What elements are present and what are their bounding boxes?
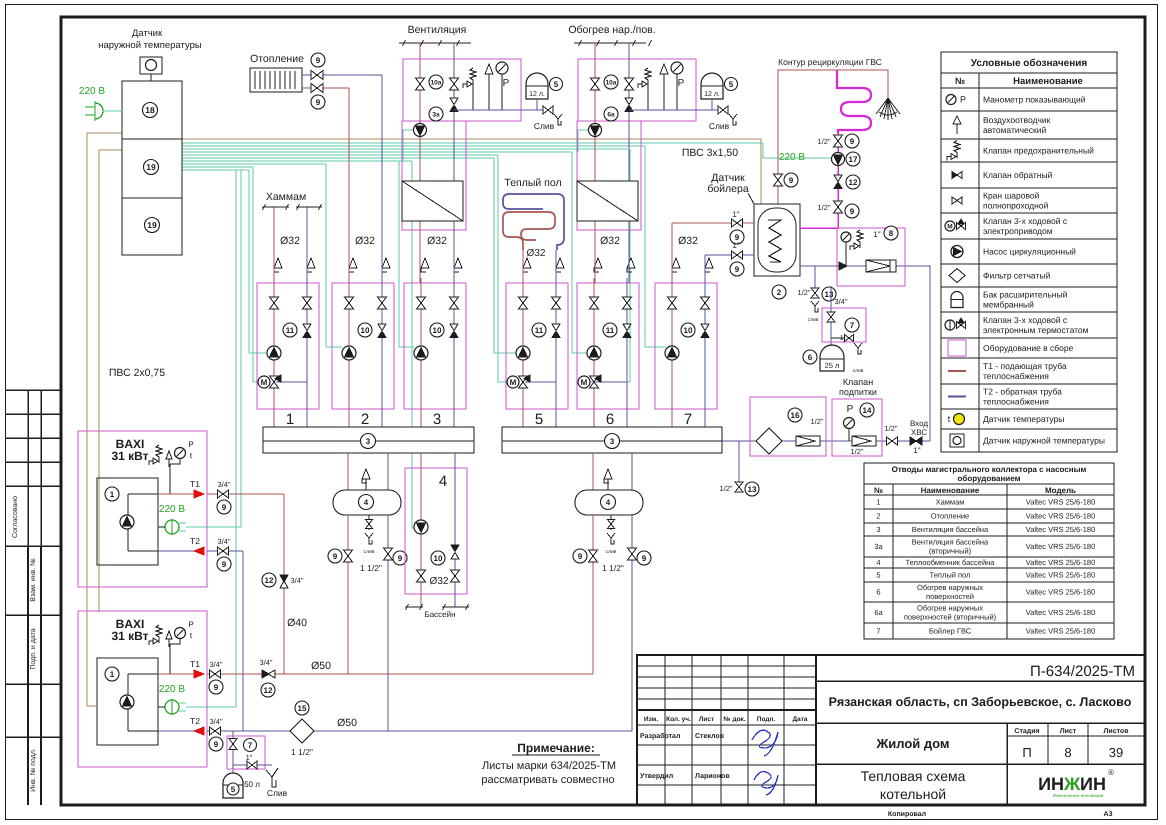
assembly Обогрев нар./пов. expansion tank 12 л (701, 73, 723, 99)
group 7 return valve (701, 297, 710, 303)
svg-text:2: 2 (876, 512, 880, 521)
sensor cable ПВС 3х1,50 to boiler sensor (182, 139, 761, 204)
svg-text:(вторичный): (вторичный) (929, 547, 972, 556)
Хаммам break lines (262, 206, 289, 208)
svg-text:3: 3 (433, 411, 441, 428)
svg-text:1": 1" (732, 210, 739, 219)
wire to pump assembly 3a (403, 130, 413, 161)
svg-text:Valtec VRS 25/6-180: Valtec VRS 25/6-180 (1026, 525, 1096, 534)
group 4 supply valve (417, 570, 426, 576)
boiler cold water line (800, 266, 930, 441)
group 5 check valve (552, 324, 560, 331)
group 4 check valve (451, 545, 459, 552)
svg-text:9: 9 (222, 560, 227, 569)
designator 3а (429, 107, 443, 121)
svg-text:Наименование: Наименование (1013, 76, 1083, 87)
svg-text:Инженерные инновации: Инженерные инновации (1053, 793, 1104, 798)
svg-text:1": 1" (873, 230, 880, 239)
group 6 return valve (623, 297, 632, 303)
group 2 return riser (381, 283, 383, 427)
svg-text:Valtec VRS 25/6-180: Valtec VRS 25/6-180 (1026, 588, 1096, 597)
svg-text:9: 9 (316, 98, 321, 107)
svg-text:Датчик: Датчик (132, 28, 163, 39)
svg-text:Ø50: Ø50 (337, 717, 357, 729)
BAXI pump (120, 695, 134, 709)
BAXI 2 return line (207, 730, 632, 732)
svg-text:П: П (1022, 745, 1031, 760)
svg-text:Взам. инв. №: Взам. инв. № (30, 558, 37, 602)
svg-text:18: 18 (145, 105, 155, 115)
svg-text:Valtec VRS 25/6-180: Valtec VRS 25/6-180 (1026, 542, 1096, 551)
svg-text:Valtec VRS 25/6-180: Valtec VRS 25/6-180 (1026, 558, 1096, 567)
svg-text:7: 7 (248, 741, 253, 750)
svg-text:Модель: Модель (1045, 486, 1076, 495)
svg-text:12 л.: 12 л. (704, 91, 720, 98)
group 1 supply valve (270, 297, 279, 303)
svg-text:9: 9 (316, 56, 321, 65)
svg-text:1/2": 1/2" (884, 424, 897, 433)
heat exchanger outdoor heating (577, 181, 638, 221)
group 7 return riser (704, 283, 706, 427)
svg-text:Р: Р (960, 95, 966, 105)
hydraulic separator 4 (333, 490, 401, 515)
recirculation pump 17 (832, 153, 845, 166)
recirculation valve 9 (774, 174, 783, 180)
group 5 valve designator 11 (532, 323, 546, 337)
svg-text:3а: 3а (874, 542, 883, 551)
svg-text:Наименование: Наименование (921, 486, 980, 495)
svg-text:9: 9 (214, 740, 219, 749)
boiler return pipe to group 7 (704, 255, 706, 283)
svg-text:9: 9 (398, 554, 403, 563)
svg-text:мембранный: мембранный (983, 300, 1034, 310)
svg-text:Разработал: Разработал (640, 732, 680, 740)
svg-text:Слив: Слив (267, 788, 288, 798)
assembly Обогрев нар./пов. box (578, 59, 696, 121)
svg-text:Хаммам: Хаммам (936, 498, 965, 507)
separator feed pipes (592, 453, 594, 490)
group 7 supply valve (668, 297, 677, 303)
radiator (250, 68, 302, 92)
wire to pump group 3 (399, 161, 414, 347)
svg-text:1": 1" (913, 446, 920, 455)
svg-text:поверхностей (вторичный): поверхностей (вторичный) (904, 613, 997, 622)
assembly Вентиляция drain funnel (554, 114, 561, 125)
svg-text:Т2: Т2 (190, 536, 200, 546)
group 6 3-way motor valve (596, 381, 627, 383)
svg-text:Ларионов: Ларионов (695, 773, 730, 780)
svg-text:7: 7 (850, 321, 855, 330)
svg-text:Примечание:: Примечание: (517, 741, 595, 755)
assembly Вентиляция safety valve (470, 68, 476, 86)
svg-text:№: № (955, 76, 965, 86)
svg-text:25 л: 25 л (825, 361, 840, 370)
BAXI pressure gauge (175, 628, 186, 639)
svg-text:3/4": 3/4" (209, 660, 222, 669)
svg-text:№ док.: № док. (723, 716, 745, 723)
svg-text:Т1: Т1 (190, 479, 200, 489)
group 5 air vent (522, 278, 524, 283)
svg-text:12 л.: 12 л. (529, 91, 545, 98)
assembly Обогрев нар./пов. air vent (660, 64, 668, 74)
svg-text:12: 12 (849, 178, 858, 187)
assembly Обогрев нар./пов. drain valve (712, 109, 726, 111)
svg-text:Ø40: Ø40 (287, 617, 307, 629)
svg-text:Датчик температуры: Датчик температуры (983, 414, 1064, 424)
svg-text:Valtec VRS 25/6-180: Valtec VRS 25/6-180 (1026, 498, 1096, 507)
svg-text:ИН: ИН (1080, 774, 1106, 794)
group 6 valve designator 11 (603, 323, 617, 337)
wire to valve M group 1 (253, 167, 261, 382)
pump group 6 box (577, 283, 639, 409)
svg-text:9: 9 (333, 552, 338, 561)
makeup reducer (852, 436, 876, 446)
Вентиляция break line (399, 42, 471, 44)
svg-text:5: 5 (231, 785, 236, 794)
group 2 supply valve (345, 297, 354, 303)
shower head (876, 98, 900, 120)
svg-text:11: 11 (535, 326, 544, 335)
svg-text:Рязанская область, сп Заборьев: Рязанская область, сп Заборьевское, с. Л… (829, 695, 1132, 709)
BAXI power plug (165, 520, 179, 534)
legend symbol assembled equipment box (948, 340, 966, 356)
svg-text:31 кВт: 31 кВт (111, 449, 148, 463)
svg-text:Вентиляция бассейна: Вентиляция бассейна (912, 538, 989, 547)
svg-text:Датчик наружной температуры: Датчик наружной температуры (983, 436, 1105, 446)
wire to valve M group 5 (498, 155, 517, 382)
recirculation check valve (834, 175, 842, 182)
svg-text:Клапан предохранительный: Клапан предохранительный (983, 146, 1094, 156)
check valve 12 on BAXI 2 supply (262, 670, 269, 678)
svg-text:5: 5 (554, 80, 559, 89)
svg-text:10: 10 (684, 326, 693, 335)
tank designator 5 (550, 78, 563, 91)
svg-text:13: 13 (748, 485, 757, 494)
boiler BAXI 31 кВт box (78, 611, 207, 767)
svg-text:Оборудование в сборе: Оборудование в сборе (983, 343, 1074, 353)
designator 6а (604, 107, 618, 121)
svg-text:9: 9 (735, 265, 740, 274)
legend symbol ball valve (952, 197, 957, 204)
svg-text:Р: Р (188, 440, 193, 449)
hydraulic separator 4 (575, 490, 643, 515)
assembly Вентиляция air vent (485, 64, 493, 74)
svg-text:автоматический: автоматический (983, 125, 1046, 135)
svg-text:Фильтр сетчатый: Фильтр сетчатый (983, 271, 1050, 281)
title block document number cell (816, 680, 1145, 682)
svg-text:9: 9 (578, 552, 583, 561)
svg-text:слив: слив (606, 549, 617, 555)
svg-text:Ж: Ж (1063, 774, 1081, 794)
legend symbol 3-way motor valve (945, 221, 955, 231)
svg-text:Копировал: Копировал (888, 811, 926, 818)
svg-text:Р: Р (847, 404, 854, 415)
drain funnel (266, 770, 276, 787)
pump group 4 box (405, 468, 467, 594)
svg-text:№: № (874, 486, 883, 495)
assembly Вентиляция lower box (402, 121, 466, 230)
riser group 2 to radiator (348, 88, 350, 278)
towel rail coil (837, 70, 871, 133)
group 5 pump (516, 346, 530, 360)
svg-text:Бойлер ГВС: Бойлер ГВС (929, 627, 972, 636)
svg-text:4: 4 (364, 498, 369, 507)
group 5 return riser (555, 283, 557, 427)
assembly Вентиляция box (403, 59, 521, 121)
svg-text:Контур рециркуляции ГВС: Контур рециркуляции ГВС (778, 57, 882, 67)
group 5 supply valve (519, 297, 528, 303)
svg-text:Р: Р (503, 78, 510, 89)
collector designator 3 (605, 434, 620, 449)
svg-text:Valtec VRS 25/6-180: Valtec VRS 25/6-180 (1026, 627, 1096, 636)
makeup water line (722, 440, 930, 442)
risers group 5 to coil (522, 250, 524, 278)
svg-text:Воздухоотводчик: Воздухоотводчик (983, 115, 1051, 125)
svg-text:M: M (581, 378, 588, 387)
svg-text:1/2": 1/2" (850, 447, 863, 456)
BAXI 1 supply drop (283, 494, 285, 674)
BAXI 1 return line (207, 550, 243, 552)
svg-text:6: 6 (808, 353, 813, 362)
group 3 pump (414, 346, 428, 360)
boiler return valve 1" (732, 251, 738, 259)
heat exchanger ventilation (402, 181, 463, 221)
legend symbol circulation pump (951, 246, 963, 258)
svg-text:А3: А3 (1104, 811, 1113, 818)
svg-text:Отводы магистрального коллекто: Отводы магистрального коллектора с насос… (892, 465, 1087, 474)
svg-text:3/4": 3/4" (259, 658, 272, 667)
svg-text:Ø32: Ø32 (427, 235, 447, 247)
wire to boiler BAXI 2 (186, 170, 236, 707)
svg-text:15: 15 (298, 704, 307, 713)
DHW boiler tank (754, 204, 800, 276)
svg-text:Ø32: Ø32 (355, 235, 375, 247)
Бассейн break lines (405, 606, 423, 608)
svg-text:1 1/2": 1 1/2" (602, 563, 624, 573)
assembly Обогрев нар./пов. return riser (628, 43, 630, 283)
valve designator 9 (311, 95, 325, 109)
separator air vent (365, 478, 367, 490)
boiler BAXI 31 кВт box (78, 431, 207, 587)
svg-text:Valtec VRS 25/6-180: Valtec VRS 25/6-180 (1026, 608, 1096, 617)
svg-text:Бассейн: Бассейн (424, 610, 455, 619)
group 4 return pipe (454, 453, 456, 607)
svg-text:1: 1 (110, 490, 115, 499)
svg-text:3: 3 (366, 437, 371, 446)
left column approval table (6, 389, 61, 391)
makeup inlet valve 1/2" (887, 437, 893, 445)
group 6 air vent (593, 278, 595, 283)
svg-text:Насос циркуляционный: Насос циркуляционный (983, 247, 1076, 257)
group 3 return valve (450, 297, 459, 303)
BAXI designator 1 (105, 667, 119, 681)
svg-text:ИН: ИН (1038, 774, 1064, 794)
controller unit 18/19/19 (122, 81, 182, 255)
group 3 check valve (450, 324, 458, 331)
svg-text:220 В: 220 В (779, 152, 805, 163)
makeup tank valve box 7 (822, 308, 866, 342)
svg-text:М: М (947, 224, 952, 231)
svg-text:19: 19 (146, 162, 156, 172)
group 7 valve designator 10 (681, 323, 695, 337)
svg-text:Вентиляция: Вентиляция (408, 24, 467, 36)
assembly Обогрев нар./пов. pressure gauge (671, 62, 683, 74)
svg-text:14: 14 (863, 406, 872, 415)
inlet check valve 1" (910, 437, 916, 445)
legend symbol T2 return line (948, 396, 966, 398)
svg-text:9: 9 (214, 683, 219, 692)
assembly Вентиляция return riser (453, 43, 455, 283)
svg-text:220 В: 220 В (79, 86, 105, 97)
svg-text:поверхностей: поверхностей (926, 592, 974, 601)
pump group 1 box (257, 283, 319, 409)
svg-text:5: 5 (876, 571, 880, 580)
legend table Условные обозначения (941, 52, 1117, 452)
group 2 pump (342, 346, 356, 360)
wire to boiler BAXI 1 (186, 170, 241, 527)
svg-text:подпитки: подпитки (839, 387, 877, 397)
svg-text:ХВС: ХВС (911, 428, 927, 437)
svg-text:10а: 10а (606, 79, 617, 86)
group 5 return valve (552, 297, 561, 303)
BAXI air vent (166, 451, 172, 459)
makeup strainer assembly box 16 (750, 397, 826, 456)
strainer 15 on return (295, 701, 309, 715)
pump group 7 box (655, 283, 717, 409)
BAXI pressure gauge (175, 448, 186, 459)
title block stage grid (1007, 735, 1145, 737)
legend symbol safety valve (954, 141, 960, 159)
svg-text:1: 1 (110, 670, 115, 679)
svg-text:Ø32: Ø32 (527, 248, 546, 259)
svg-text:5: 5 (729, 80, 734, 89)
group 1 return riser (306, 283, 308, 427)
svg-text:17: 17 (849, 155, 858, 164)
svg-text:Слив: Слив (709, 121, 730, 131)
svg-text:котельной: котельной (880, 786, 946, 802)
svg-text:Стеклов: Стеклов (695, 733, 725, 740)
svg-text:ПВС 2х0,75: ПВС 2х0,75 (109, 367, 165, 379)
wire to pump group 6 (572, 152, 587, 353)
svg-text:Отопление: Отопление (931, 512, 969, 521)
svg-text:Отопление: Отопление (250, 53, 304, 65)
group 2 supply riser (348, 283, 350, 427)
signature scribbles (752, 730, 778, 756)
svg-text:12: 12 (264, 686, 273, 695)
group 6 pump (587, 346, 601, 360)
separator outlet valves (347, 515, 349, 674)
group 3 return riser (453, 283, 455, 427)
svg-text:Подп. и дата: Подп. и дата (30, 628, 37, 669)
floor heating coil (503, 212, 555, 250)
expansion tank 25 л (820, 345, 844, 371)
svg-text:7: 7 (876, 627, 880, 636)
assembly Обогрев нар./пов. check valve (625, 98, 633, 105)
BAXI inner unit (97, 658, 158, 745)
svg-text:Valtec VRS 25/6-180: Valtec VRS 25/6-180 (1026, 512, 1096, 521)
title block (637, 655, 1145, 805)
svg-text:Ø50: Ø50 (311, 660, 331, 672)
svg-text:Бак расширительный: Бак расширительный (983, 290, 1068, 300)
assembly Обогрев нар./пов. manifold line (629, 109, 677, 111)
cold water drain branch 13 (814, 266, 816, 288)
svg-text:Обогрев наружных: Обогрев наружных (917, 604, 983, 613)
svg-text:1/2": 1/2" (719, 484, 732, 493)
group 1 supply riser (273, 283, 275, 427)
svg-text:Жилой дом: Жилой дом (875, 736, 949, 751)
svg-text:6а: 6а (874, 608, 883, 617)
svg-text:Ø32: Ø32 (280, 235, 300, 247)
svg-text:электронным термостатом: электронным термостатом (983, 325, 1089, 335)
legend symbol outdoor temperature sensor (950, 434, 964, 447)
svg-text:9: 9 (850, 207, 855, 216)
group 1 return valve (303, 297, 312, 303)
svg-text:220 В: 220 В (159, 684, 185, 695)
group 4 pump (414, 520, 428, 534)
group 7 air vent (671, 278, 673, 283)
boiler designator 2 (772, 285, 786, 299)
svg-text:Дата: Дата (792, 716, 807, 723)
svg-text:Клапан обратный: Клапан обратный (983, 170, 1053, 180)
svg-text:Утвердил: Утвердил (640, 773, 673, 780)
Обогрев нар./пов. break line (574, 42, 646, 44)
legend symbol strainer filter (949, 269, 965, 283)
svg-text:1/2": 1/2" (817, 203, 830, 212)
valve radiator return (302, 87, 349, 89)
group 1 check valve (303, 324, 311, 331)
power plug controller (95, 103, 103, 119)
svg-text:3/4": 3/4" (209, 717, 222, 726)
svg-text:16: 16 (791, 411, 800, 420)
boiler supply pipe from group 7 (671, 223, 673, 283)
assembly Вентиляция pressure gauge (496, 62, 508, 74)
group 6 check valve (623, 324, 631, 331)
svg-text:50 л: 50 л (244, 780, 260, 789)
assembly Вентиляция pump (414, 124, 427, 137)
makeup strainer (756, 428, 782, 454)
BAXI power plug (165, 700, 179, 714)
assembly Обогрев нар./пов. supply riser (594, 43, 596, 283)
svg-text:4: 4 (606, 498, 611, 507)
group 4 designator 10 (431, 551, 445, 565)
sensor cable to BAXI 1 (87, 133, 122, 706)
svg-text:9: 9 (642, 554, 647, 563)
legend symbol expansion tank (951, 292, 963, 308)
svg-text:Т2: Т2 (190, 716, 200, 726)
recirculation supply line (778, 70, 888, 204)
group 2 air vent (348, 278, 350, 283)
group 6 supply valve (590, 297, 599, 303)
assembly 8 check valve (839, 262, 847, 270)
svg-text:Листов: Листов (1103, 728, 1129, 735)
legend symbol T1 supply line (948, 370, 966, 372)
wire to pump group 7 (645, 146, 666, 347)
svg-text:рассматривать совместно: рассматривать совместно (481, 774, 614, 786)
supply-return collector left (263, 427, 474, 453)
svg-text:теплоснабжения: теплоснабжения (983, 371, 1049, 381)
group 2 return valve (378, 297, 387, 303)
legend symbol air vent (953, 116, 961, 124)
assembly Вентиляция expansion tank 12 л (526, 73, 548, 99)
boiler supply valve 1" (732, 219, 738, 227)
assembly Обогрев нар./пов. return valve (625, 78, 634, 84)
wire to valve M group 6 (588, 149, 630, 382)
assembly Вентиляция check valve (450, 98, 458, 105)
svg-text:Ø32: Ø32 (678, 235, 698, 247)
svg-text:4: 4 (876, 558, 880, 567)
valve radiator supply (302, 74, 382, 76)
svg-text:1 1/2": 1 1/2" (291, 747, 313, 757)
